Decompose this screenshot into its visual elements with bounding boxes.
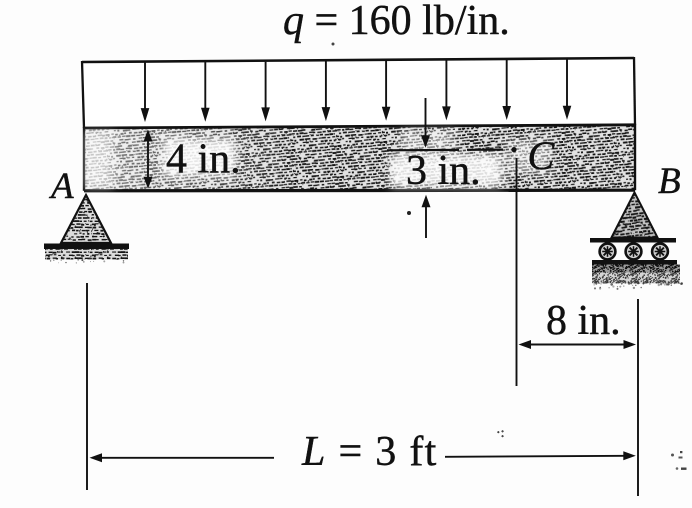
svg-text:8 in.: 8 in. [546, 298, 621, 344]
svg-text:4 in.: 4 in. [166, 137, 241, 183]
svg-text:q = 160 lb/in.: q = 160 lb/in. [283, 0, 510, 44]
svg-text:3 in.: 3 in. [406, 148, 481, 194]
svg-text:C: C [528, 133, 556, 178]
svg-text:B: B [658, 161, 681, 202]
svg-text:L = 3 ft: L = 3 ft [301, 429, 438, 475]
svg-text:·:: ·: [496, 426, 505, 441]
svg-text:A: A [48, 166, 74, 207]
